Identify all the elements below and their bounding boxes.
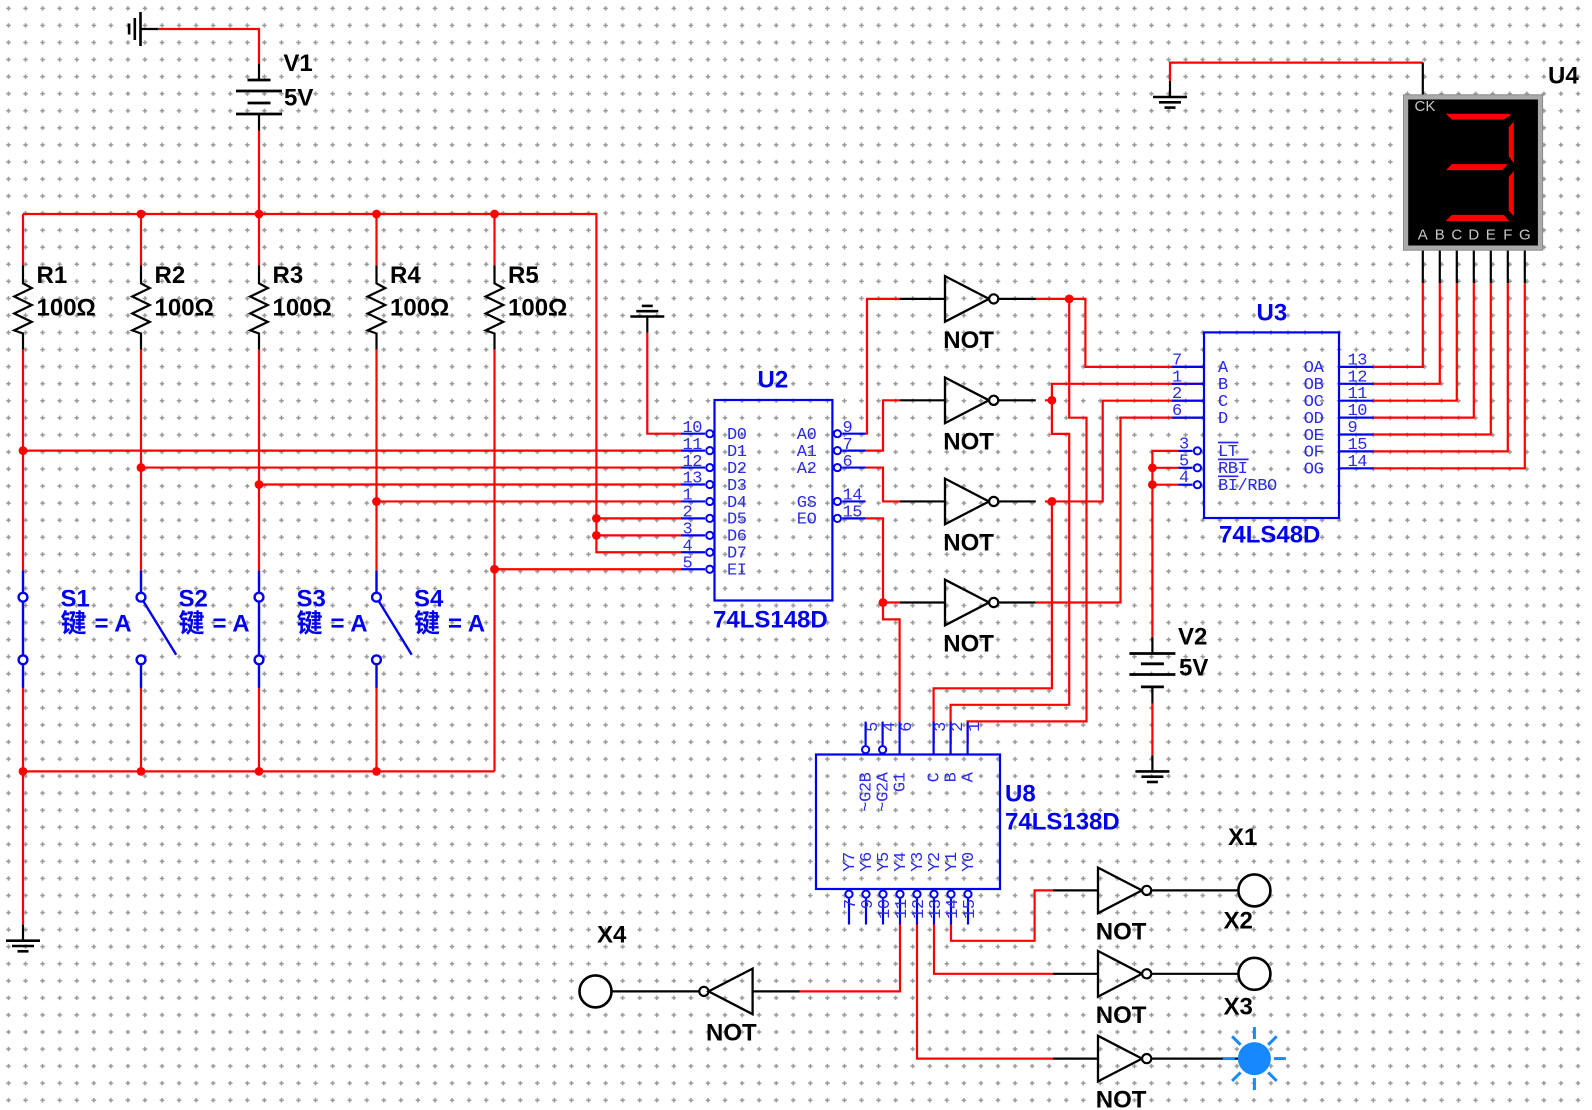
wire U2 A0 to NOT U5 input xyxy=(866,299,900,434)
svg-text:CK: CK xyxy=(1415,98,1436,115)
junction RBI xyxy=(1148,463,1157,472)
svg-text:14: 14 xyxy=(1348,453,1368,472)
svg-text:U8: U8 xyxy=(1005,781,1036,808)
wire U3 OB to U4 pin B xyxy=(1373,283,1440,384)
svg-text:Y0: Y0 xyxy=(960,852,979,872)
U8 top pin 5 ~G2B xyxy=(864,722,866,745)
U8 top pin 1 A xyxy=(966,722,968,755)
wire bus to R5 xyxy=(493,214,495,265)
wire NOT U5 out to U8 A xyxy=(968,299,1087,744)
wire NOT output stub xyxy=(998,298,1036,300)
svg-text:D: D xyxy=(1218,410,1228,429)
svg-text:V2: V2 xyxy=(1178,624,1207,651)
probe X2 xyxy=(1238,958,1270,990)
svg-text:V1: V1 xyxy=(283,50,312,77)
U8 top pin 4 ~G2A xyxy=(881,722,883,745)
battery V1 xyxy=(236,64,282,131)
junction bus/V1/R3 xyxy=(255,210,264,219)
switch S1 xyxy=(19,571,28,688)
U8 bottom pin 7 Y7 xyxy=(848,899,850,925)
inverter NOT gate at U2 U6 row xyxy=(900,378,998,424)
wire bus to R3 xyxy=(258,214,260,265)
svg-text:R4: R4 xyxy=(390,262,421,289)
label S4 key 键 = A xyxy=(415,610,486,637)
wire NOT U7 out to U8 C xyxy=(934,501,1052,744)
wire U2 A2 to NOT U7 input xyxy=(866,468,900,502)
wire EO branch down to U8 G1 xyxy=(883,603,900,722)
U8 bottom pin 9 Y6 xyxy=(865,899,867,925)
svg-text:NOT: NOT xyxy=(706,1020,757,1047)
wire R5 column xyxy=(493,350,495,772)
ground GND1 top-left xyxy=(129,12,159,46)
wire U3 OG to U4 pin G xyxy=(1373,283,1525,468)
U2 pin 3 D6 xyxy=(681,534,705,536)
wire bus to R1 xyxy=(22,214,24,265)
resistor R1 xyxy=(14,265,32,349)
U2 pin 6 A2 xyxy=(842,466,865,468)
wire NOT U5 out to U3 A xyxy=(1036,299,1205,367)
U3 pin 3 LT xyxy=(1178,450,1192,452)
wire U3 OF to U4 pin F xyxy=(1373,283,1508,451)
wire branch to U3 RBI xyxy=(1152,467,1178,469)
wire R5 to U2 EI xyxy=(495,568,682,570)
svg-text:6: 6 xyxy=(898,722,917,732)
junction bus/R5 xyxy=(490,210,499,219)
inverter NOT gate at U2 U9 row xyxy=(900,580,998,626)
U2 pin 5 EI xyxy=(681,568,705,570)
svg-text:5: 5 xyxy=(683,554,693,573)
svg-text:X1: X1 xyxy=(1228,824,1257,851)
svg-text:R3: R3 xyxy=(273,262,304,289)
svg-text:NOT: NOT xyxy=(1096,1002,1147,1029)
wire NOT out to probe xyxy=(1151,1057,1238,1059)
svg-text:NOT: NOT xyxy=(943,529,994,556)
svg-text:74LS48D: 74LS48D xyxy=(1219,522,1320,549)
svg-text:B: B xyxy=(1435,227,1445,244)
svg-text:15: 15 xyxy=(961,899,980,919)
wire R2 column to U2 D2 xyxy=(141,466,681,468)
wire bus to R4 xyxy=(375,214,377,265)
inverter NOT gate for probe X3 xyxy=(1053,1036,1151,1082)
wire V1 to +5V bus xyxy=(258,131,260,214)
U8 bottom pin 14 Y1 xyxy=(950,899,952,925)
op IC U3 74LS48D body xyxy=(1204,332,1339,518)
wire NOT U6 out to U8 B xyxy=(951,400,1070,744)
U8 bottom pin 10 Y5 xyxy=(882,899,884,925)
junction D5 xyxy=(592,514,601,523)
svg-text:S3: S3 xyxy=(297,586,326,613)
svg-text:EI: EI xyxy=(727,562,747,581)
wire bus to R2 xyxy=(140,214,142,265)
svg-text:E: E xyxy=(1486,227,1496,244)
U3 pin 6 D xyxy=(1172,417,1204,419)
wire bottom bus xyxy=(23,770,495,772)
U3 pin 4 BI/RBO xyxy=(1178,484,1192,486)
junction bus/R2 xyxy=(137,210,146,219)
inverter NOT gate for probe X2 xyxy=(1053,951,1151,997)
svg-text:S1: S1 xyxy=(61,586,90,613)
svg-text:EO: EO xyxy=(797,511,817,530)
svg-text:A2: A2 xyxy=(797,460,817,479)
svg-text:15: 15 xyxy=(843,504,863,523)
junction EO branch to U8 G1 xyxy=(879,598,888,607)
svg-text:= A: = A xyxy=(331,611,368,638)
U3 pin 11 OC xyxy=(1339,400,1373,402)
U3 pin 12 OB xyxy=(1339,383,1373,385)
wire GND1 to V1 xyxy=(159,29,259,64)
U2 pin 1 D4 xyxy=(681,500,705,502)
wire NOT out to probe xyxy=(1151,973,1238,975)
junction NOT U6 out xyxy=(1048,396,1057,405)
svg-text:NOT: NOT xyxy=(943,631,994,658)
svg-text:74LS138D: 74LS138D xyxy=(1005,809,1120,836)
wire S4 to bottom bus xyxy=(375,688,377,772)
U2 pin 7 A1 xyxy=(842,450,865,452)
U8 top pin 3 C xyxy=(932,722,934,755)
wire NOT U6 out to U3 B xyxy=(1045,384,1204,401)
svg-text:6: 6 xyxy=(843,453,853,472)
wire U2 EO to NOT U9 input xyxy=(866,518,900,602)
svg-text:C: C xyxy=(1451,227,1462,244)
wire bus branch to U2 D5 xyxy=(596,517,681,519)
switch S3 xyxy=(255,571,264,688)
wire S3 to bottom bus xyxy=(258,688,260,772)
U8 top pin 6 G1 xyxy=(898,722,900,755)
wire NOT U7 out to U3 C xyxy=(1045,401,1204,502)
U2 pin 11 D1 xyxy=(681,450,705,452)
wire U3 OA to U4 pin A xyxy=(1373,283,1423,367)
label S2 key 键 = A xyxy=(179,610,250,637)
wire +5V bus xyxy=(23,214,596,518)
ground GND5 below V2 xyxy=(1135,755,1169,782)
svg-text:100Ω: 100Ω xyxy=(508,294,567,321)
svg-text:U3: U3 xyxy=(1257,300,1288,327)
junction bus/R4 xyxy=(372,210,381,219)
svg-text:R5: R5 xyxy=(508,262,539,289)
junction bottom bus S3 col xyxy=(255,767,264,776)
ground GND4 (display CK) xyxy=(1153,81,1187,108)
resistor R3 xyxy=(250,265,268,349)
wire U3 OD to U4 pin D xyxy=(1373,283,1474,417)
wire branch to U3 BI/RBO xyxy=(1152,484,1178,486)
U2 pin 13 D3 xyxy=(681,483,705,485)
op IC U8 74LS138D body xyxy=(816,755,1000,890)
wire R4 to S4 xyxy=(375,350,377,571)
svg-text:S4: S4 xyxy=(414,586,444,613)
junction R1 column to U2 D1 xyxy=(19,446,28,455)
U2 pin 9 A0 xyxy=(842,433,865,435)
U8 bottom pin 15 Y0 xyxy=(967,899,969,925)
wire R4 column to U2 D4 xyxy=(377,500,682,502)
junction R3 column to U2 D3 xyxy=(255,480,264,489)
wire NOT U9 out to U3 D xyxy=(1036,418,1204,603)
ground GND3 (U2 D0) xyxy=(630,306,664,333)
wire V2 to U3 LT xyxy=(1152,451,1178,637)
wire S2 to bottom bus xyxy=(140,688,142,772)
resistor R4 xyxy=(368,265,386,349)
label S1 key 键 = A xyxy=(61,610,132,637)
svg-text:G: G xyxy=(1519,227,1531,244)
inverter NOT gate for X4 (facing left) xyxy=(612,969,800,1015)
wire U3 OC to U4 pin C xyxy=(1373,283,1457,401)
svg-text:1: 1 xyxy=(966,722,985,732)
svg-text:100Ω: 100Ω xyxy=(390,294,449,321)
svg-text:X4: X4 xyxy=(597,922,627,949)
resistor R2 xyxy=(132,265,150,349)
op IC U2 74LS148D body xyxy=(715,400,833,601)
svg-text:S2: S2 xyxy=(179,586,208,613)
svg-text:R2: R2 xyxy=(155,262,186,289)
wire U2 A1 to NOT U6 input xyxy=(866,400,900,450)
svg-text:100Ω: 100Ω xyxy=(37,294,96,321)
U3 pin 9 OE xyxy=(1339,433,1373,435)
junction BI/RBO xyxy=(1148,480,1157,489)
wire S1 to bottom bus xyxy=(22,688,24,772)
wire bus branch to U2 D7 xyxy=(596,535,681,552)
U3 pin 10 OD xyxy=(1339,417,1373,419)
svg-text:NOT: NOT xyxy=(1096,1087,1147,1110)
wire NOT out to probe xyxy=(1151,889,1238,891)
svg-text:= A: = A xyxy=(448,611,485,638)
svg-text:5V: 5V xyxy=(284,85,313,112)
U2 pin 4 D7 xyxy=(681,551,705,553)
wire U3 OE to U4 pin E xyxy=(1373,283,1491,434)
U8 bottom pin 11 Y4 xyxy=(899,899,901,925)
seven-segment display U4 xyxy=(1404,95,1543,250)
svg-text:U2: U2 xyxy=(758,367,789,394)
wire U8 Y1 to NOT X1 gate xyxy=(951,890,1053,940)
U3 pin 7 A xyxy=(1172,366,1204,368)
inverter NOT gate for probe X1 xyxy=(1053,868,1151,914)
probe X1 xyxy=(1238,874,1270,906)
U3 pin 15 OF xyxy=(1339,450,1373,452)
switch S4 xyxy=(372,571,412,688)
U2 pin 10 D0 xyxy=(681,433,705,435)
U3 pin 14 OG xyxy=(1339,467,1373,469)
junction R2 column to U2 D2 xyxy=(137,463,146,472)
wire NOT output stub xyxy=(998,399,1036,401)
wire V2 to GND5 xyxy=(1151,703,1153,755)
wire bus branch to U2 D6 xyxy=(596,518,681,535)
U2 pin 2 D5 xyxy=(681,517,705,519)
U8 top pin 2 B xyxy=(949,722,951,755)
svg-text:100Ω: 100Ω xyxy=(273,294,332,321)
wire R3 to S3 xyxy=(258,350,260,571)
wire R3 column to U2 D3 xyxy=(259,483,681,485)
inverter NOT gate at U2 U7 row xyxy=(900,479,998,525)
label S3 key 键 = A xyxy=(297,610,368,637)
wire U8 Y3 to NOT X3 gate xyxy=(917,925,1053,1059)
svg-text:6: 6 xyxy=(1172,402,1182,421)
switch S2 xyxy=(137,571,177,688)
U3 pin 2 C xyxy=(1172,400,1204,402)
svg-text:X2: X2 xyxy=(1224,908,1253,935)
junction R4 column to U2 D4 xyxy=(372,497,381,506)
svg-text:R1: R1 xyxy=(37,262,68,289)
U8 bottom pin 12 Y3 xyxy=(916,899,918,925)
svg-text:U4: U4 xyxy=(1548,63,1579,90)
wire bus to GND2 xyxy=(22,771,24,924)
wire NOT output stub xyxy=(998,500,1036,502)
svg-text:5V: 5V xyxy=(1179,655,1208,682)
junction NOT U7 out xyxy=(1048,497,1057,506)
svg-text:= A: = A xyxy=(95,611,132,638)
U8 bottom pin 13 Y2 xyxy=(933,899,935,925)
svg-text:= A: = A xyxy=(213,611,250,638)
junction R5/EI xyxy=(490,565,499,574)
svg-text:100Ω: 100Ω xyxy=(155,294,214,321)
U2 pin 14 GS xyxy=(842,500,865,502)
svg-text:4: 4 xyxy=(1179,469,1189,488)
U3 pin 13 OA xyxy=(1339,366,1373,368)
wire GND4 to U4 CK xyxy=(1170,63,1423,81)
resistor R5 xyxy=(486,265,504,349)
U3 pin 5 RBI xyxy=(1178,467,1192,469)
svg-text:NOT: NOT xyxy=(943,327,994,354)
svg-text:D: D xyxy=(1468,227,1479,244)
svg-text:NOT: NOT xyxy=(1096,918,1147,945)
svg-text:A: A xyxy=(1418,227,1428,244)
probe X4 xyxy=(580,975,612,1007)
wire GND3 to U2 D0 xyxy=(647,333,681,434)
U2 pin 12 D2 xyxy=(681,466,705,468)
wire R1 column to U2 D1 xyxy=(23,450,681,452)
wire U8 Y4 to NOT X4 gate xyxy=(800,925,900,992)
wire R2 to S2 xyxy=(140,350,142,571)
U2 pin 15 EO xyxy=(842,517,865,519)
junction NOT U5 out xyxy=(1065,295,1074,304)
junction bottom bus S2 col xyxy=(137,767,146,776)
inverter NOT gate at U2 U5 row xyxy=(900,276,998,322)
svg-text:74LS148D: 74LS148D xyxy=(713,607,828,634)
svg-text:NOT: NOT xyxy=(943,428,994,455)
svg-text:A: A xyxy=(960,771,979,782)
svg-text:F: F xyxy=(1503,227,1512,244)
svg-text:G1: G1 xyxy=(892,772,911,792)
junction D6 xyxy=(592,531,601,540)
svg-text:BI/RBO: BI/RBO xyxy=(1218,477,1277,496)
junction bottom bus S4 col xyxy=(372,767,381,776)
probe X3 (lit lamp) xyxy=(1223,1027,1286,1090)
junction bottom bus S1 col xyxy=(19,767,28,776)
svg-text:X3: X3 xyxy=(1224,994,1253,1021)
U3 pin 1 B xyxy=(1172,383,1204,385)
ground GND2 bottom-left xyxy=(6,925,40,952)
wire NOT output stub xyxy=(998,601,1036,603)
svg-text:OG: OG xyxy=(1304,461,1324,480)
wire R1 to S1 xyxy=(22,350,24,571)
battery V2 xyxy=(1129,637,1175,703)
wire U8 Y2 to NOT X2 gate xyxy=(934,925,1053,974)
